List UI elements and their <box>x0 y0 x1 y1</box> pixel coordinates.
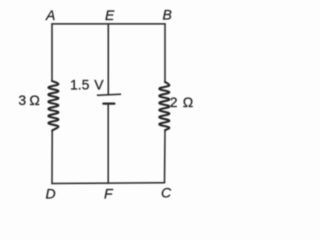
svg-text:Ω: Ω <box>29 92 39 108</box>
svg-text:1.5: 1.5 <box>70 77 90 93</box>
resistor R1 3-ohm zigzag <box>48 81 58 131</box>
wire right upper B to resistor R2 <box>164 24 166 82</box>
battery B1 short plate (-) <box>103 102 114 104</box>
wire bottom D-F-C <box>52 182 165 185</box>
svg-text:3: 3 <box>18 92 26 108</box>
svg-text:B: B <box>163 7 172 23</box>
svg-text:A: A <box>45 7 55 23</box>
wire middle upper E to battery <box>107 24 109 95</box>
wire left lower resistor R1 to D <box>51 131 53 184</box>
svg-text:C: C <box>161 185 172 201</box>
wire top A-E-B <box>52 23 165 25</box>
wire middle lower battery to F <box>107 104 109 183</box>
wire left upper A to resistor R1 <box>51 24 53 81</box>
svg-text:Ω: Ω <box>183 94 193 110</box>
battery B1 long plate (+) <box>98 94 121 95</box>
svg-text:F: F <box>104 185 114 201</box>
svg-text:D: D <box>46 185 56 201</box>
wire right lower resistor R2 to C <box>164 130 167 183</box>
svg-text:E: E <box>105 7 115 23</box>
svg-text:V: V <box>94 77 104 93</box>
svg-text:2: 2 <box>170 94 178 110</box>
resistor R2 2-ohm zigzag <box>159 82 169 130</box>
